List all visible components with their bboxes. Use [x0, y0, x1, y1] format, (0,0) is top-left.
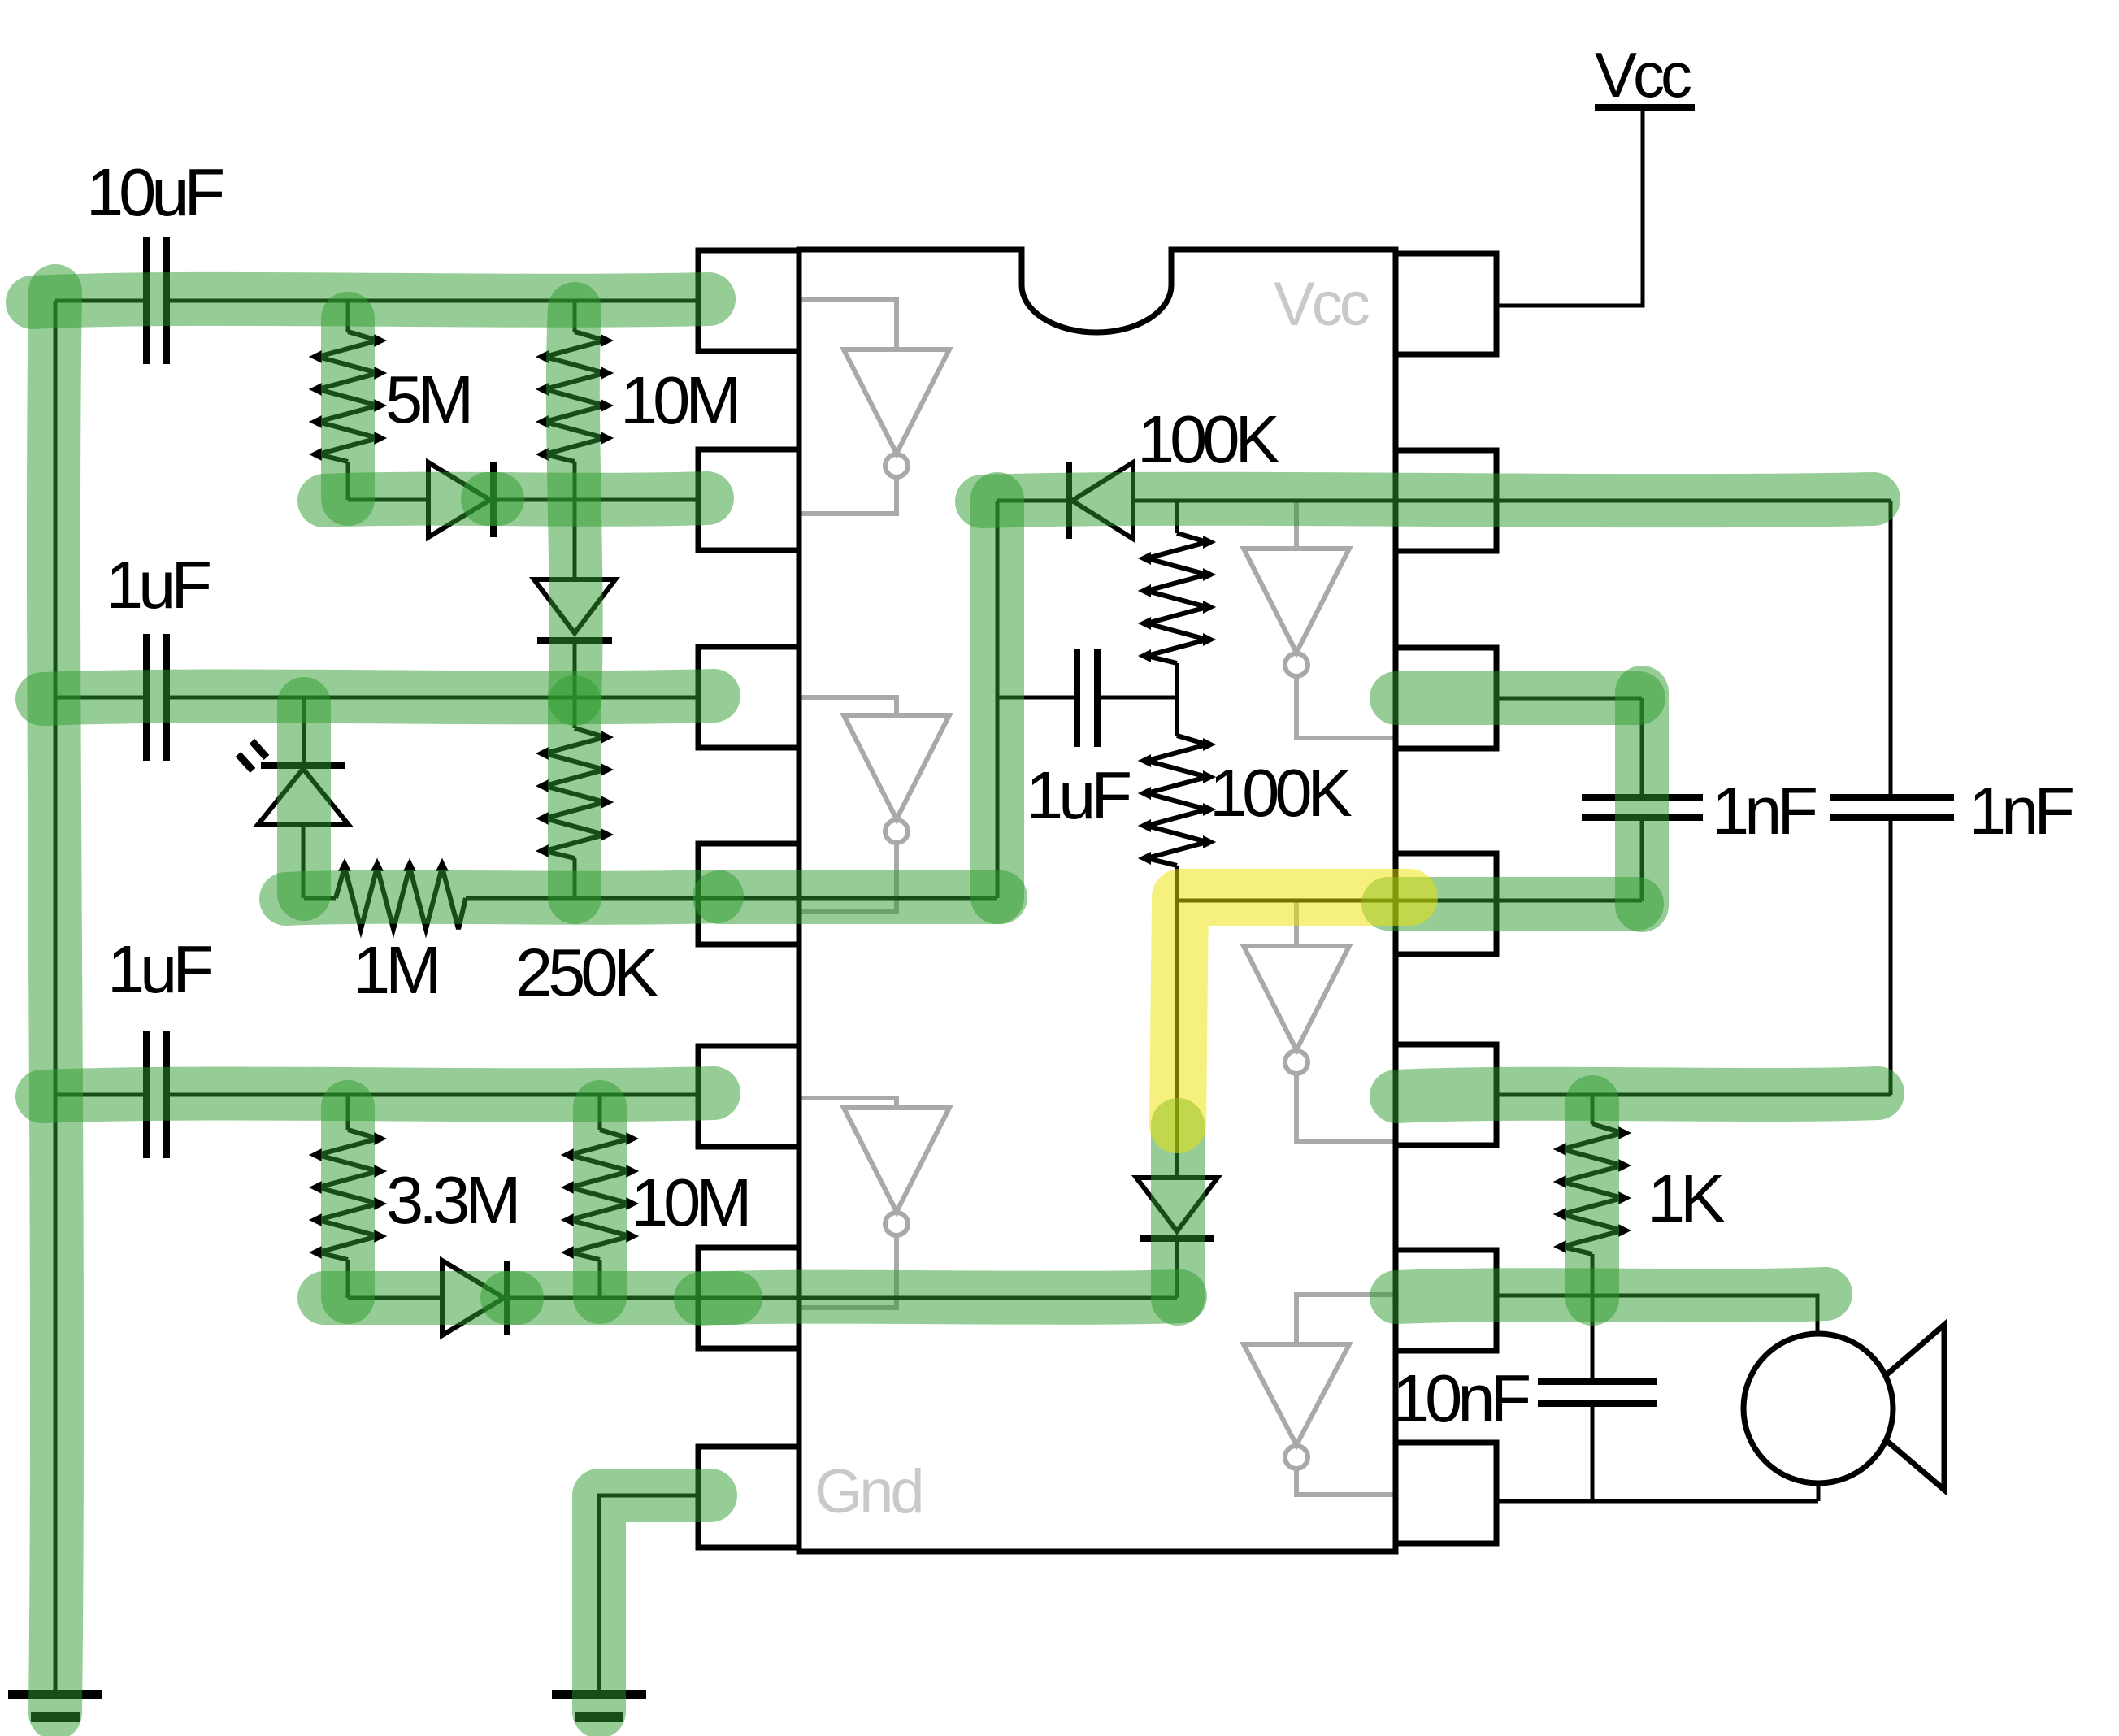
svg-text:250K: 250K — [515, 935, 658, 1010]
svg-text:10M: 10M — [620, 362, 736, 438]
svg-text:Vcc: Vcc — [1595, 39, 1691, 111]
svg-text:1K: 1K — [1648, 1161, 1725, 1236]
svg-text:Gnd: Gnd — [814, 1457, 922, 1526]
svg-text:100K: 100K — [1209, 755, 1352, 831]
svg-text:10M: 10M — [631, 1165, 747, 1240]
svg-text:1nF: 1nF — [1712, 773, 1816, 848]
svg-text:100K: 100K — [1137, 401, 1279, 477]
svg-text:1uF: 1uF — [106, 547, 210, 623]
svg-text:1nF: 1nF — [1969, 773, 2073, 848]
svg-text:Vcc: Vcc — [1274, 270, 1369, 339]
svg-text:10nF: 10nF — [1392, 1361, 1529, 1436]
svg-text:1M: 1M — [353, 932, 436, 1008]
svg-text:1uF: 1uF — [107, 931, 211, 1007]
svg-text:3.3M: 3.3M — [386, 1162, 517, 1238]
svg-text:1uF: 1uF — [1026, 757, 1130, 833]
svg-text:10uF: 10uF — [86, 154, 223, 230]
svg-text:5M: 5M — [385, 362, 469, 437]
